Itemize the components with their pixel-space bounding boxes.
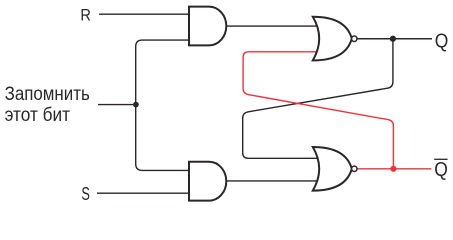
svg-text:R: R — [80, 6, 91, 25]
wire S to AND2 input — [97, 192, 191, 194]
wire R to AND1 input — [99, 13, 191, 15]
svg-text:Запомнить: Запомнить — [5, 84, 90, 105]
wire NOR1 output to Q — [357, 38, 432, 40]
wire memory branch to AND1 and AND2 inputs — [136, 40, 191, 170]
wire AND1 output to NOR1 input — [226, 25, 322, 27]
junction node Q — [390, 36, 396, 42]
AND gate upper (R side) — [189, 7, 226, 46]
wire feedback Q-bar to NOR1 lower input (red) — [243, 52, 393, 169]
NOR gate upper body — [313, 17, 352, 61]
junction memory-bit node — [133, 102, 139, 108]
NOR gate upper output bubble — [352, 36, 357, 41]
svg-text:Q: Q — [434, 159, 448, 181]
NOR gate lower body — [313, 147, 352, 191]
wire NOR2 output to Q-bar (red) — [357, 168, 431, 170]
AND gate lower (S side) — [189, 162, 226, 201]
svg-text:этот бит: этот бит — [5, 105, 71, 126]
wire memory-bit label to junction — [98, 104, 136, 106]
junction node Q-bar (red) — [390, 166, 396, 172]
svg-text:S: S — [81, 184, 90, 204]
svg-text:Q: Q — [435, 30, 449, 52]
wire AND2 output to NOR2 input — [226, 180, 322, 182]
NOR gate lower output bubble — [352, 166, 357, 171]
wire feedback Q to NOR2 upper input — [243, 39, 393, 159]
